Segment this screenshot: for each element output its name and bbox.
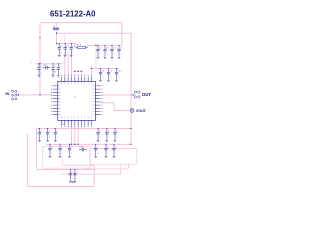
wire net stub d — [74, 73, 76, 77]
wire U1 bottom a — [71, 125, 73, 144]
U1 pins — [53, 77, 101, 126]
capacitor C18 — [113, 128, 118, 142]
svg-text:.1: .1 — [107, 153, 109, 155]
capacitor C13 — [51, 63, 56, 77]
ground — [71, 182, 74, 183]
svg-text:.1: .1 — [71, 178, 73, 180]
svg-text:V: V — [30, 62, 32, 64]
connector J2 OUT — [132, 91, 140, 98]
capacitor C10 — [115, 68, 122, 82]
capacitor C15 — [54, 128, 59, 142]
svg-text:C: C — [51, 147, 53, 149]
wire net stub f — [80, 73, 82, 77]
svg-text:.1: .1 — [76, 178, 78, 180]
capacitor C28 — [73, 169, 78, 183]
wire U1 to VOUT — [100, 103, 130, 111]
capacitor C1 — [58, 43, 64, 57]
svg-text:C: C — [116, 131, 118, 133]
svg-text:.1: .1 — [108, 137, 110, 139]
capacitor C15 — [38, 128, 43, 142]
wire web 1 — [62, 159, 94, 166]
wire U1 bottom c — [77, 125, 79, 144]
svg-text:C: C — [40, 66, 42, 68]
svg-text:.1: .1 — [66, 52, 68, 54]
svg-text:C1: C1 — [60, 46, 64, 48]
wire net VIN top rail — [40, 23, 122, 46]
capacitor C14 — [57, 63, 62, 77]
wire R1 steps — [76, 44, 88, 48]
wire left drop to gnd rail — [37, 128, 96, 169]
wire U1 bottom b — [74, 125, 76, 144]
svg-text:.1: .1 — [61, 153, 63, 155]
capacitor C3 — [70, 43, 76, 57]
svg-text:OUT: OUT — [142, 92, 152, 97]
svg-text:C: C — [61, 147, 63, 149]
capacitor C18 — [105, 128, 110, 142]
svg-text:C7: C7 — [120, 48, 124, 50]
wire U1 to OUT — [100, 94, 131, 96]
svg-text:.1: .1 — [110, 77, 112, 79]
svg-text:C: C — [41, 131, 43, 133]
capacitor C28 — [69, 169, 74, 183]
svg-text:C: C — [49, 131, 51, 133]
capacitor C7 — [117, 45, 123, 59]
capacitor C18 — [96, 128, 101, 142]
connector J3 VOUT — [130, 109, 134, 113]
svg-text:C5: C5 — [106, 48, 110, 50]
capacitor C4 — [96, 45, 102, 59]
capacitor C25 — [104, 144, 109, 158]
capacitor C12 — [43, 65, 51, 70]
svg-text:C: C — [59, 66, 61, 68]
capacitor C21 — [48, 144, 53, 158]
wire rail tap — [64, 33, 66, 43]
svg-text:.1: .1 — [102, 77, 104, 79]
connector J1 IN — [12, 90, 19, 100]
svg-text:.1: .1 — [49, 137, 51, 139]
svg-text:C9: C9 — [110, 71, 114, 73]
svg-text:C3: C3 — [72, 46, 76, 48]
wire bead stub lower — [56, 31, 58, 43]
resistor R1 — [76, 45, 88, 49]
wire net VCC rail — [57, 33, 132, 144]
svg-text:C4: C4 — [99, 48, 103, 50]
svg-text:.1: .1 — [72, 52, 74, 54]
wire bead stub upper — [56, 23, 58, 26]
svg-text:U1: U1 — [54, 71, 58, 73]
svg-text:.1: .1 — [116, 137, 118, 139]
svg-text:C: C — [54, 66, 56, 68]
svg-text:C8: C8 — [102, 71, 106, 73]
svg-text:.1: .1 — [118, 77, 120, 79]
svg-text:.1: .1 — [60, 52, 62, 54]
svg-text:.1: .1 — [113, 54, 115, 56]
capacitor C11 — [37, 63, 42, 77]
wire riser pin a — [64, 53, 66, 77]
wire right mid bus — [92, 67, 119, 69]
svg-text:F: F — [53, 26, 55, 28]
svg-text:C: C — [76, 172, 78, 174]
svg-text:.1: .1 — [115, 153, 117, 155]
svg-text:VOUT: VOUT — [136, 109, 147, 113]
op-amp U1 body — [58, 81, 96, 120]
svg-text:GND: GND — [61, 124, 66, 126]
wire riser pin b — [67, 53, 69, 77]
svg-text:C6: C6 — [113, 48, 117, 50]
U1 pin names — [59, 82, 95, 118]
svg-text:C: C — [108, 131, 110, 133]
capacitor C25 — [112, 144, 117, 158]
capacitor C9 — [107, 68, 113, 82]
capacitor C21 — [68, 144, 73, 158]
svg-text:.1: .1 — [41, 137, 43, 139]
wire junctions — [39, 33, 131, 145]
capacitor C6 — [110, 45, 116, 59]
capacitor C5 — [103, 45, 109, 59]
capacitor C21 — [58, 144, 63, 158]
wire bottom bus 2 — [46, 143, 131, 145]
svg-text:C12: C12 — [43, 65, 48, 67]
U1 pin numbers — [51, 75, 103, 127]
capacitor C2 — [64, 43, 70, 57]
wire bottom bus 1 — [37, 127, 131, 129]
wire riser pin c — [71, 53, 73, 77]
svg-text:C10: C10 — [118, 71, 123, 73]
wire top bus left — [57, 43, 76, 45]
wire top bus right — [88, 44, 122, 46]
wire outer gnd loop — [27, 134, 94, 187]
capacitor C15 — [46, 128, 51, 142]
svg-text:.1: .1 — [99, 137, 101, 139]
svg-text:.1: .1 — [97, 153, 99, 155]
wire riser from U1 pin — [91, 68, 93, 76]
variant box right — [90, 149, 137, 165]
svg-text:.1: .1 — [51, 153, 53, 155]
wire IN to U1 — [17, 94, 53, 96]
capacitor C8 — [99, 68, 105, 82]
no-connect tick — [39, 37, 41, 39]
svg-text:C: C — [71, 172, 73, 174]
svg-text:C: C — [71, 147, 73, 149]
capacitor C24 — [79, 147, 87, 152]
wire web 3 — [60, 164, 121, 174]
wire riser from top bus — [95, 45, 97, 68]
svg-text:C: C — [56, 131, 58, 133]
svg-text:C2: C2 — [66, 46, 70, 48]
wire VIN left drop — [39, 23, 41, 95]
svg-text:.1: .1 — [106, 54, 108, 56]
svg-text:651-2122-A0: 651-2122-A0 — [50, 9, 96, 18]
wire web 2 — [85, 164, 128, 169]
wire left mid bus — [35, 63, 63, 65]
svg-text:IN: IN — [5, 91, 9, 96]
ferrite bead FB1 — [53, 26, 58, 31]
wire net stub e — [77, 73, 79, 77]
svg-text:.1: .1 — [59, 72, 61, 74]
U1 center mark — [74, 96, 75, 97]
svg-text:C: C — [99, 131, 101, 133]
variant box left — [43, 146, 90, 168]
svg-text:.1: .1 — [71, 153, 73, 155]
svg-text:.1: .1 — [56, 137, 58, 139]
svg-text:.1: .1 — [99, 54, 101, 56]
svg-text:.1: .1 — [120, 54, 122, 56]
capacitor C25 — [94, 144, 99, 158]
net labels above U1 — [74, 71, 83, 72]
svg-text:.1: .1 — [40, 72, 42, 74]
